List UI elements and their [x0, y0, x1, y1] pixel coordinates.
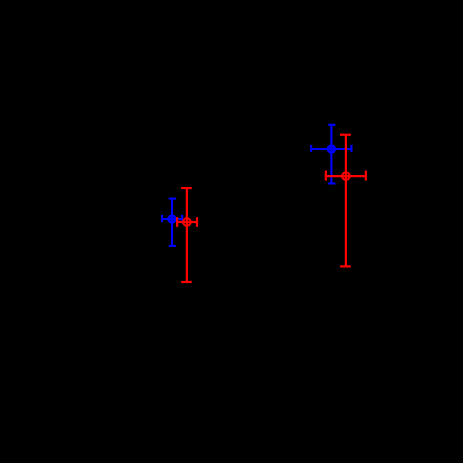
blue point 2 y error bottom cap [328, 182, 335, 184]
red point 2 y error bottom cap [340, 265, 351, 267]
red point 2 marker [342, 172, 350, 180]
red point 2 x error right cap [365, 171, 367, 181]
blue point 1 x error right cap [181, 215, 183, 222]
red point 2 x error left cap [325, 171, 327, 181]
blue point 2 marker [328, 146, 335, 153]
blue point 2 x error right cap [350, 145, 352, 152]
red point 2 y error top cap [340, 134, 351, 136]
red point 1 y error bottom cap [181, 281, 192, 283]
red point 1 x error bar [177, 221, 197, 223]
blue point 1 x error left cap [161, 215, 163, 222]
blue point 2 y error top cap [328, 124, 335, 126]
blue point 2 x error left cap [310, 145, 312, 152]
blue point 2 x error bar [311, 148, 351, 150]
red point 1 marker [183, 218, 191, 226]
blue point 1 y error top cap [169, 198, 176, 200]
blue point 1 y error bottom cap [169, 245, 176, 247]
blue point 2 y error bar [330, 125, 332, 184]
red point 2 x error bar [326, 175, 366, 177]
red point 1 x error right cap [196, 217, 198, 227]
red point 1 x error left cap [176, 217, 178, 227]
blue point 1 y error bar [171, 199, 173, 246]
red point 1 y error top cap [181, 187, 192, 189]
red point 1 y error bar [186, 188, 188, 282]
blue point 1 x error bar [162, 218, 182, 220]
red point 2 y error bar [345, 135, 347, 267]
blue point 1 marker [169, 216, 176, 223]
